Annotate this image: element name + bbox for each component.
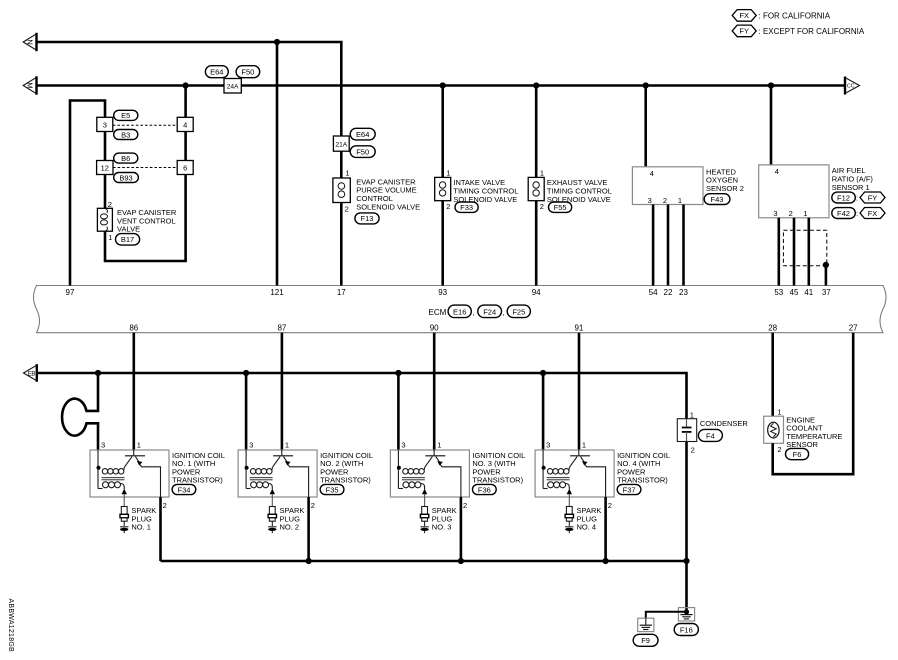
wire A/F sensor pin 4 xyxy=(770,86,773,165)
svg-text:E64: E64 xyxy=(356,130,369,139)
wire ECM pin 91 to coil4 pin 1 xyxy=(578,333,581,451)
wire ECM pin 22 xyxy=(667,205,670,286)
wire ECM pin 45 xyxy=(793,218,796,286)
svg-text:93: 93 xyxy=(438,288,447,297)
fuse 24A xyxy=(224,79,241,94)
svg-text:F35: F35 xyxy=(326,485,339,494)
solenoid coil intake valve timing control solenoid valve F33 xyxy=(435,169,519,213)
fuse 21A xyxy=(333,136,349,151)
svg-text:1: 1 xyxy=(678,196,682,205)
svg-text:FX: FX xyxy=(868,209,878,218)
page arrow Z (top left) xyxy=(23,33,36,51)
svg-text:NO. 1: NO. 1 xyxy=(131,523,151,532)
ECM pin labels bottom row xyxy=(129,323,858,332)
node rail junction condenser xyxy=(683,558,689,564)
svg-text:CC: CC xyxy=(847,84,855,90)
page arrow M (second left) xyxy=(23,76,36,94)
connector B3 xyxy=(114,130,138,140)
svg-text:3: 3 xyxy=(249,441,253,450)
tag FY xyxy=(860,192,885,203)
connector F12 xyxy=(832,192,856,203)
svg-text:1: 1 xyxy=(137,441,141,450)
connector B6 xyxy=(114,153,138,163)
connector E64 (24A) xyxy=(205,66,228,78)
svg-text:1: 1 xyxy=(690,410,694,419)
svg-text:2: 2 xyxy=(540,202,544,211)
connector F35 xyxy=(320,484,344,494)
svg-text:NO. 3: NO. 3 xyxy=(432,523,452,532)
svg-text:37: 37 xyxy=(822,288,831,297)
wire ECT sensor to ECM pin 27 xyxy=(773,333,854,475)
wire ECM pin 90 to coil3 pin 1 xyxy=(433,333,436,451)
svg-text:B93: B93 xyxy=(119,173,132,182)
svg-text:F12: F12 xyxy=(837,193,850,202)
svg-text:2: 2 xyxy=(311,501,315,510)
ECM band xyxy=(34,286,887,333)
node junction coil1 feed xyxy=(95,370,101,376)
node junction coil3 feed xyxy=(395,370,401,376)
svg-text:94: 94 xyxy=(532,288,541,297)
node junction M bus intake valve xyxy=(440,82,446,88)
svg-text:2: 2 xyxy=(345,204,349,213)
svg-text:86: 86 xyxy=(129,323,138,332)
svg-text:6: 6 xyxy=(183,163,187,172)
connector F50 (21A) xyxy=(350,146,375,158)
wire loop to ignition coil 1 pin 3 xyxy=(62,373,98,450)
wire coil3 pin2 down xyxy=(460,497,463,561)
wire ground rail xyxy=(161,560,687,563)
svg-text:TRANSISTOR): TRANSISTOR) xyxy=(172,476,223,485)
svg-text:3: 3 xyxy=(103,120,107,129)
connector F25 xyxy=(507,305,530,318)
svg-text:F6: F6 xyxy=(793,450,802,459)
svg-text:SENSOR 1: SENSOR 1 xyxy=(832,183,870,192)
svg-text:F42: F42 xyxy=(837,209,850,218)
svg-text:2: 2 xyxy=(463,501,467,510)
ECM label xyxy=(429,305,531,318)
connector F55 xyxy=(549,202,572,212)
svg-text:1: 1 xyxy=(777,407,781,416)
legend hexagon FX xyxy=(732,10,831,22)
svg-text:ECM: ECM xyxy=(429,308,447,317)
svg-text:TRANSISTOR): TRANSISTOR) xyxy=(320,476,371,485)
svg-text:53: 53 xyxy=(774,288,783,297)
connector 3 xyxy=(97,117,113,131)
connector F33 xyxy=(455,202,478,212)
ignition coil U3 F36 xyxy=(390,441,525,534)
svg-text:F16: F16 xyxy=(680,625,693,634)
svg-text:3: 3 xyxy=(101,441,105,450)
svg-text:FX: FX xyxy=(739,11,749,20)
svg-text:F43: F43 xyxy=(711,195,724,204)
connector F9 xyxy=(633,634,658,646)
svg-text:1: 1 xyxy=(285,441,289,450)
connector B93 xyxy=(114,173,139,183)
svg-text:4: 4 xyxy=(183,120,187,129)
svg-text:3: 3 xyxy=(401,441,405,450)
svg-text:21A: 21A xyxy=(335,142,347,149)
connector F42 xyxy=(832,208,856,219)
connector F43 xyxy=(704,194,730,205)
ignition coil U1 F34 xyxy=(90,441,225,534)
wire to ECM pin 93 xyxy=(441,86,444,286)
wire to ground F9 xyxy=(646,612,687,618)
svg-text:TRANSISTOR): TRANSISTOR) xyxy=(472,476,523,485)
svg-text:4: 4 xyxy=(650,169,654,178)
svg-text:3: 3 xyxy=(648,196,652,205)
connector B17 xyxy=(116,234,140,246)
svg-text:F50: F50 xyxy=(356,148,369,157)
wire ECM pin 121 xyxy=(276,42,279,286)
shield dashed box xyxy=(783,230,826,266)
wire ECM pin 37 xyxy=(825,265,828,286)
ECM pin labels top row xyxy=(66,288,832,297)
node junction on Z bus xyxy=(274,39,280,45)
connector F4 xyxy=(698,429,722,441)
connector E64 (21A) xyxy=(350,128,375,140)
page arrow CC (right) xyxy=(845,77,860,95)
legend hexagon FY xyxy=(732,25,865,37)
svg-text:17: 17 xyxy=(337,288,346,297)
svg-text:91: 91 xyxy=(574,323,583,332)
svg-text:45: 45 xyxy=(790,288,799,297)
wire dashed 3-4 xyxy=(113,124,177,126)
svg-text:TRANSISTOR): TRANSISTOR) xyxy=(617,476,668,485)
svg-text:2: 2 xyxy=(163,501,167,510)
node shield junction xyxy=(823,262,829,268)
wire coil4 pin 3 xyxy=(542,373,545,450)
svg-text:1: 1 xyxy=(446,169,450,178)
svg-text:1: 1 xyxy=(582,441,586,450)
svg-text:F25: F25 xyxy=(512,307,525,316)
wire ECM pin 54 xyxy=(652,205,655,286)
connector 12 xyxy=(97,161,113,175)
svg-text:22: 22 xyxy=(664,288,673,297)
wire coil3 pin 3 xyxy=(397,373,400,450)
svg-text:F55: F55 xyxy=(554,203,567,212)
wire EVAP vent control valve loop to ECM pin 97 xyxy=(70,86,186,286)
svg-text:NO. 4: NO. 4 xyxy=(577,523,597,532)
svg-text:2: 2 xyxy=(446,202,450,211)
solenoid coil EVAP canister purge volume control solenoid valve F13 xyxy=(333,169,420,224)
wire dashed 12-6 xyxy=(113,167,177,169)
svg-text:27: 27 xyxy=(849,323,858,332)
svg-text:FY: FY xyxy=(868,193,878,202)
ignition coil U2 F35 xyxy=(238,441,373,534)
wire bus Z xyxy=(37,42,342,137)
svg-text:E64: E64 xyxy=(210,68,223,77)
svg-text:F13: F13 xyxy=(361,214,374,223)
node rail junction coil2 xyxy=(306,558,312,564)
capacitor condenser F4 xyxy=(677,410,748,454)
svg-text:F9: F9 xyxy=(641,636,650,645)
svg-text:CONDENSER: CONDENSER xyxy=(700,419,749,428)
svg-text:97: 97 xyxy=(66,288,75,297)
svg-text:2: 2 xyxy=(108,200,112,209)
svg-text:B3: B3 xyxy=(121,130,130,139)
wire coil4 pin2 down xyxy=(604,497,607,561)
svg-text:N: N xyxy=(26,39,35,44)
node rail junction coil3 xyxy=(458,558,464,564)
page arrow EB (bottom left) xyxy=(24,364,37,382)
wire ECM pin 41 xyxy=(807,218,810,286)
svg-text:1: 1 xyxy=(540,169,544,178)
svg-text:F34: F34 xyxy=(178,485,191,494)
connector E5 xyxy=(114,110,138,120)
node junction M bus A/F sensor xyxy=(768,82,774,88)
connector F13 xyxy=(355,213,379,224)
node rail junction coil4 xyxy=(603,558,609,564)
svg-text:1: 1 xyxy=(108,233,112,242)
wire ECM pin 87 to coil2 pin 1 xyxy=(281,333,284,451)
wire coil2 pin 3 xyxy=(245,373,248,450)
svg-text:2: 2 xyxy=(663,196,667,205)
ignition coil U4 F37 xyxy=(535,441,670,534)
wire ECM pin 23 xyxy=(682,205,685,286)
connector F16 xyxy=(674,624,698,636)
svg-text:1: 1 xyxy=(345,169,349,178)
svg-text:F36: F36 xyxy=(478,485,491,494)
svg-text:F33: F33 xyxy=(460,203,473,212)
sensor heated oxygen sensor 2 F43 xyxy=(632,167,744,205)
connector 6 xyxy=(177,161,193,175)
wire condenser to ground xyxy=(685,442,688,612)
sensor air fuel ratio sensor 1 xyxy=(759,165,885,219)
svg-text:3: 3 xyxy=(773,209,777,218)
wire bus EB xyxy=(37,373,687,419)
tag FX xyxy=(860,208,885,219)
ground F16 xyxy=(674,608,698,636)
svg-text:F50: F50 xyxy=(241,68,254,77)
connector F34 xyxy=(172,484,196,494)
svg-text:SENSOR 2: SENSOR 2 xyxy=(706,184,744,193)
svg-text:12: 12 xyxy=(101,163,109,172)
svg-text:: FOR CALIFORNIA: : FOR CALIFORNIA xyxy=(759,11,831,20)
svg-text:2: 2 xyxy=(608,501,612,510)
svg-text:M: M xyxy=(26,82,35,88)
wire coil2 pin2 down xyxy=(307,497,310,561)
svg-text:,: , xyxy=(472,308,474,317)
svg-text:90: 90 xyxy=(430,323,439,332)
solenoid coil EVAP canister vent control valve xyxy=(97,200,177,245)
svg-text:4: 4 xyxy=(775,167,779,176)
node junction coil2 feed xyxy=(243,370,249,376)
svg-text:2: 2 xyxy=(789,209,793,218)
svg-text:B17: B17 xyxy=(121,235,134,244)
svg-text:121: 121 xyxy=(270,288,284,297)
connector F36 xyxy=(473,484,497,494)
sensor engine coolant temperature sensor F6 xyxy=(764,407,843,459)
svg-text:F37: F37 xyxy=(623,485,636,494)
connector E16 xyxy=(448,305,471,318)
svg-text:SOLENOID VALVE: SOLENOID VALVE xyxy=(356,202,420,211)
svg-text:24A: 24A xyxy=(227,84,239,91)
wire bus M xyxy=(37,84,846,87)
svg-text:54: 54 xyxy=(649,288,658,297)
svg-text:E16: E16 xyxy=(453,307,466,316)
svg-text:1: 1 xyxy=(437,441,441,450)
node junction coil4 feed xyxy=(540,370,546,376)
svg-text:23: 23 xyxy=(679,288,688,297)
node junction M bus exhaust valve xyxy=(533,82,539,88)
svg-text:VALVE: VALVE xyxy=(117,225,140,234)
svg-text:ABBWA1218GB: ABBWA1218GB xyxy=(7,599,14,653)
svg-text:41: 41 xyxy=(804,288,813,297)
wire to ECM pin 94 xyxy=(535,86,538,286)
node junction on M bus (vent valve branch) xyxy=(183,82,189,88)
wire coil1 pin2 down xyxy=(159,497,162,561)
svg-text::: : xyxy=(856,194,858,203)
svg-text:87: 87 xyxy=(277,323,286,332)
connector F50 (24A) xyxy=(236,66,260,78)
svg-text:FY: FY xyxy=(739,27,749,36)
svg-text:F24: F24 xyxy=(483,307,496,316)
svg-text:2: 2 xyxy=(691,446,695,455)
svg-text:3: 3 xyxy=(546,441,550,450)
solenoid coil exhaust valve timing control solenoid valve F55 xyxy=(528,169,612,213)
wire HO2S pin 4 xyxy=(644,86,647,167)
ground F9 xyxy=(633,618,658,646)
connector F37 xyxy=(617,484,641,494)
node junction M bus HO2S xyxy=(643,82,649,88)
svg-text:: EXCEPT FOR CALIFORNIA: : EXCEPT FOR CALIFORNIA xyxy=(759,27,865,36)
connector F6 xyxy=(786,448,809,459)
svg-text:E5: E5 xyxy=(121,111,130,120)
connector F24 xyxy=(478,305,502,318)
svg-text:1: 1 xyxy=(803,209,807,218)
wire ECM pin 53 xyxy=(777,218,780,286)
svg-text:2: 2 xyxy=(777,445,781,454)
wire ECM pin 28 to ECT sensor xyxy=(771,333,774,417)
wire ECM pin 86 to coil1 pin 1 xyxy=(133,333,136,451)
svg-text::: : xyxy=(856,209,858,218)
svg-text:EB: EB xyxy=(28,372,36,378)
svg-text:F4: F4 xyxy=(706,431,715,440)
wire to ECM pin 17 xyxy=(340,151,343,285)
svg-text:,: , xyxy=(503,308,505,317)
connector 4 xyxy=(177,117,193,131)
svg-text:B6: B6 xyxy=(121,154,130,163)
svg-text:NO. 2: NO. 2 xyxy=(280,523,300,532)
svg-text:28: 28 xyxy=(768,323,777,332)
